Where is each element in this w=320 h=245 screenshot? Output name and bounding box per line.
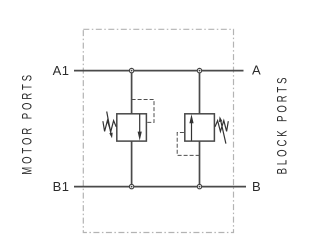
enclosure dashed boundary <box>83 29 233 232</box>
svg-text:MOTOR PORTS: MOTOR PORTS <box>20 72 35 175</box>
svg-text:A: A <box>252 63 261 78</box>
relief valve V2 body <box>185 114 215 141</box>
node: junction B-line / right branch <box>197 184 201 188</box>
wire: right branch lower segment <box>199 141 201 187</box>
svg-text:A1: A1 <box>53 63 70 78</box>
wire: right branch upper segment <box>199 71 201 114</box>
node: junction B1-line / left branch <box>129 184 133 188</box>
relief valve V1 pilot line (dashed) <box>132 100 154 123</box>
relief valve V1 flow arrow (down) <box>138 114 142 140</box>
relief valve V2 flow arrow (up) <box>189 114 193 140</box>
relief valve V1 body <box>117 114 147 141</box>
relief valve V2 adjustable spring <box>215 116 228 143</box>
node: junction A1-line / left branch <box>129 68 133 72</box>
wire: left branch lower segment <box>131 141 133 187</box>
svg-text:B: B <box>252 179 261 194</box>
relief valve V1 adjustable spring <box>103 112 116 139</box>
svg-text:BLOCK PORTS: BLOCK PORTS <box>275 75 290 175</box>
wire: left branch upper segment <box>131 71 133 114</box>
wire: port line B1-B <box>74 186 246 188</box>
wire: port line A1-A <box>74 70 244 72</box>
svg-text:B1: B1 <box>53 179 70 194</box>
node: junction A-line / right branch <box>197 68 201 72</box>
relief valve V2 pilot line (dashed) <box>177 133 199 156</box>
